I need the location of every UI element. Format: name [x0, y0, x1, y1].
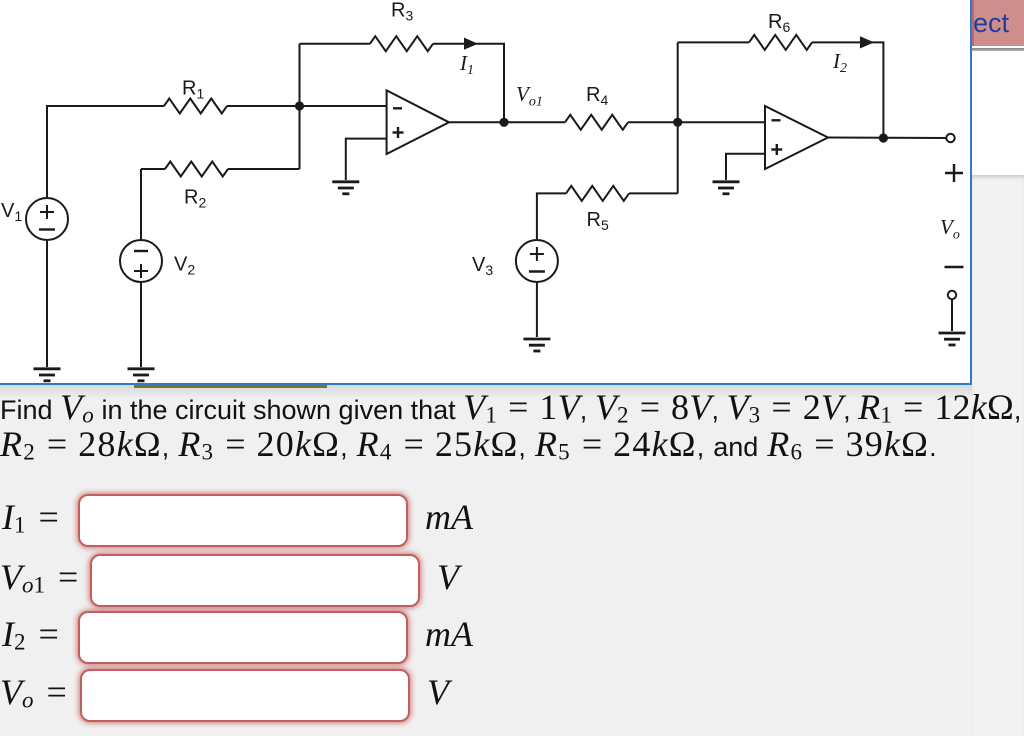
current arrow I1 [464, 38, 478, 50]
svg-text:V1: V1 [1, 200, 22, 224]
wire R4 to op-amp U2 minus input (through node Y) [628, 121, 765, 123]
wire V2 bottom to ground [140, 282, 142, 367]
svg-text:R3: R3 [391, 0, 413, 24]
svg-text:Vo: Vo [940, 215, 960, 243]
wire R5 right segment to node Y [629, 192, 678, 194]
svg-text:R1: R1 [182, 78, 204, 102]
resistor R2 [165, 162, 228, 177]
ground (output reference) [939, 333, 966, 345]
answer row Vo [0, 669, 449, 722]
wire R3 right segment with corner down to output node [433, 44, 504, 123]
wire U1 output to R4 (through node Vo1) [449, 121, 565, 123]
Incorrect tab (cropped) [972, 0, 1024, 46]
node X junction dot [295, 101, 304, 110]
ground (V1) [34, 369, 61, 381]
resistor R3 [370, 36, 433, 51]
svg-text:V2: V2 [174, 254, 195, 278]
problem statement line 2 [0, 423, 937, 465]
answer row I1 [2, 494, 473, 547]
resistor R6 [749, 35, 812, 50]
wire R5 left segment with corner down to V3 [537, 193, 566, 240]
answer row I2 [2, 611, 473, 664]
wire node X vertical (R3 branch down to R2 line) [299, 44, 301, 169]
ground (U2 plus input) [713, 182, 740, 194]
svg-text:I1: I1 [459, 51, 474, 78]
wire V1 bottom to ground [46, 240, 48, 367]
ground (V3) [523, 339, 550, 351]
problem statement line 1 [0, 386, 1021, 428]
ground (V2) [128, 369, 155, 381]
wire node Y vertical up to R6 [677, 42, 679, 122]
wire R1 to op-amp minus input (through node X) [227, 105, 387, 107]
svg-text:R2: R2 [184, 187, 206, 211]
minus mark (Vo polarity) [945, 266, 964, 268]
wire R6 left segment [678, 41, 749, 43]
circuit canvas [0, 0, 972, 385]
node Vo1 junction dot [499, 118, 508, 127]
op-amp U1 [387, 90, 449, 154]
wire R3 left segment [300, 43, 371, 45]
svg-text:R6: R6 [768, 11, 790, 35]
wire R2 to node X vertical [228, 168, 300, 170]
wire R2 line left segment [141, 168, 165, 170]
wire R6 right segment with corner down to output node [812, 42, 883, 138]
source V1 [26, 198, 68, 240]
plus mark (Vo polarity) [945, 164, 963, 182]
wire node Y vertical down to R5 line [677, 122, 679, 193]
resistor R5 [566, 186, 629, 201]
wire V1 top to R1 [47, 106, 164, 198]
terminal Vo open circle [946, 134, 954, 142]
svg-text:I2: I2 [832, 49, 847, 76]
source V2 (reversed polarity) [120, 240, 162, 282]
resistor R1 [164, 99, 227, 114]
olive underline [134, 385, 327, 388]
op-amp U2 [765, 106, 828, 169]
wire op-amp U2 plus input to ground [726, 154, 765, 180]
svg-text:Vo1: Vo1 [516, 82, 543, 110]
wire op-amp U1 plus input to ground [346, 139, 387, 180]
resistor R4 [565, 115, 628, 130]
node Vo junction dot [879, 133, 888, 142]
svg-text:R4: R4 [586, 84, 608, 108]
current arrow I2 [860, 36, 874, 48]
svg-text:R5: R5 [587, 209, 609, 233]
wire lower terminal to ground [951, 299, 953, 331]
wire V3 bottom to ground [536, 282, 538, 337]
wire U2 output to terminal (through output node) [828, 137, 946, 140]
wire V2 top [140, 169, 142, 240]
answer row Vo1 [0, 554, 459, 607]
svg-text:V3: V3 [472, 254, 493, 278]
node Y junction dot [673, 118, 682, 127]
ground (U1 plus input) [332, 182, 359, 194]
source V3 [516, 240, 558, 282]
terminal lower open circle [948, 291, 956, 299]
